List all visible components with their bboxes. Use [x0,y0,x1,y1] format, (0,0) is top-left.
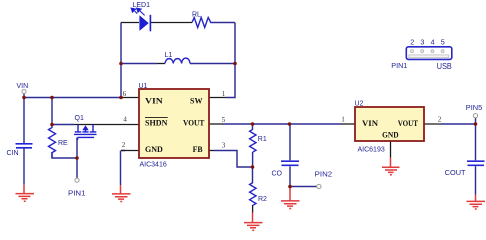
svg-text:AIC3416: AIC3416 [140,162,167,169]
pin 3 FB stub [209,150,214,152]
wire: right vertical x235 [226,23,235,98]
svg-text:2: 2 [410,37,414,46]
L1 left pin [157,63,165,65]
svg-text:LED1: LED1 [133,2,151,9]
svg-text:4: 4 [123,116,127,124]
pin 6 stub [121,97,139,99]
svg-text:VIN: VIN [17,83,29,90]
wire: R1 top/bottom stubs [252,124,254,167]
ground (R2) [244,213,263,231]
wire: L1 row [121,63,235,65]
PIN2 terminal [317,184,321,188]
svg-text:COUT: COUT [445,170,467,177]
ground (U1 pin2) [112,185,131,201]
capacitor CIN [16,144,33,148]
svg-text:2: 2 [122,141,126,149]
svg-text:RE: RE [58,140,68,147]
pin 2 stub [121,150,139,152]
node VOUT / R1 [251,122,255,126]
ground (CIN) [16,185,35,201]
LED anode pin [121,22,139,24]
svg-text:VOUT: VOUT [183,117,205,127]
node VOUT / CO [288,122,292,126]
svg-text:U1: U1 [139,83,148,90]
svg-text:GND: GND [145,144,163,154]
wire: R2 top stub [252,167,254,183]
svg-text:R2: R2 [258,196,267,203]
wire: left vertical x121 [120,23,122,98]
svg-text:USB: USB [437,61,452,71]
svg-text:VOUT: VOUT [398,118,418,128]
USB connector J1 [406,47,452,60]
U2 pin 2 stub [424,123,441,125]
svg-text:CIN: CIN [7,150,19,157]
node RE bottom / PIN1 [75,156,79,160]
svg-text:PIN5: PIN5 [466,105,483,112]
svg-text:6: 6 [123,90,127,98]
svg-text:3: 3 [420,37,424,46]
pin 5 VOUT stub [209,123,223,125]
LED arrows [131,8,144,15]
svg-text:PIN1: PIN1 [391,61,407,70]
PIN5 terminal [473,114,477,118]
wire: top LED/RL loop [24,23,476,195]
svg-text:2: 2 [438,115,442,123]
wire: U2 pin2 to PIN5 [441,118,476,124]
node rail / x52 branch [50,96,54,100]
LED D1 symbol [131,8,151,31]
ground (CO/PIN2) [281,187,300,209]
svg-text:U2: U2 [355,100,364,107]
VIN terminal [22,89,26,93]
svg-text:Q1: Q1 [75,115,84,122]
R2 bottom stub [252,205,254,213]
node R1/R2/FB [251,165,255,169]
resistor R2 [250,183,256,206]
U2 GND pin stub [390,141,392,158]
svg-text:RL: RL [192,11,201,18]
PIN1 terminal (left) [75,178,79,182]
wire: RE bottom to PIN1 junction [52,138,77,179]
svg-text:1: 1 [341,115,345,123]
node Q1 source / RE top [50,123,54,127]
Q1 substrate arrow [82,125,88,130]
inductor L1 [165,58,190,63]
node rail / x121 [119,96,123,100]
node PIN5 / COUT [474,122,478,126]
pin 4 row wire Q1 to U1 [74,124,139,126]
resistor RL [192,18,213,28]
IC U1 box [139,89,209,158]
wire: CIN bottom [23,148,25,185]
svg-text:PIN2: PIN2 [315,172,333,179]
pin stubs (black) [74,23,441,213]
svg-text:PIN1: PIN1 [68,190,86,197]
ground (COUT) [467,195,486,209]
wire: x52 branch to Q1/RE row [52,98,74,125]
svg-text:SHDN: SHDN [145,117,168,127]
resistor RE [49,125,56,159]
wire: CO branch [289,124,291,187]
svg-text:4: 4 [431,37,435,46]
U2 pin 1 stub [341,123,355,125]
capacitor COUT [467,161,485,165]
IC U2 box [355,107,424,141]
svg-text:L1: L1 [165,52,173,59]
transistor Q1 [74,125,97,141]
svg-text:GND: GND [382,130,399,140]
node L1 left [119,62,123,66]
wire: VIN rail y97.5 [24,94,121,144]
svg-text:VIN: VIN [362,118,379,128]
svg-text:CO: CO [272,170,283,177]
wire: CO junction to PIN2 [290,186,317,188]
svg-text:VIN: VIN [145,95,164,105]
wire: PIN5 down to COUT [475,124,477,195]
node L1 right [233,62,237,66]
svg-text:AIC6193: AIC6193 [358,146,385,153]
node CO / PIN2 [288,185,292,189]
svg-text:FB: FB [193,144,203,154]
pin 1 SW stub [209,97,226,99]
svg-text:SW: SW [190,95,203,105]
svg-text:R1: R1 [258,136,267,143]
svg-text:3: 3 [222,142,226,150]
wire: FB net [214,151,253,168]
ground (U2 GND) [382,158,400,175]
svg-text:5: 5 [222,116,226,124]
wire: VOUT net y124 [223,123,341,125]
svg-text:1: 1 [222,90,226,98]
capacitor CO [281,161,299,165]
node VIN rail / CIN [22,96,26,100]
resistor R1 [250,129,256,152]
svg-text:5: 5 [441,37,445,46]
wire: U1 pin2 to ground [121,151,126,186]
LED cathode / RL left pin [151,22,192,24]
